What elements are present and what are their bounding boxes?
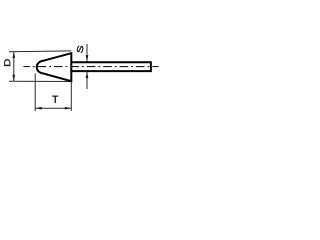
D arrowhead up (12, 52, 15, 59)
T arrowhead right (65, 107, 72, 110)
S arrowhead up (86, 72, 89, 79)
label D (4, 59, 10, 66)
shank top edge (71, 61, 151, 63)
T arrowhead left (35, 107, 42, 110)
T dimension line (35, 107, 71, 109)
D extension line top (9, 50, 71, 53)
S arrowhead down (86, 55, 89, 62)
S leader line bottom (86, 72, 88, 89)
shank end line (150, 61, 152, 72)
S leader line top (86, 44, 88, 62)
D extension line bottom (9, 80, 71, 82)
centerline (23, 66, 158, 68)
label S (77, 46, 83, 53)
D dimension line (13, 52, 15, 82)
T extension line right (70, 82, 72, 111)
label T (52, 96, 58, 103)
shank bottom edge (71, 70, 151, 72)
cone body (37, 53, 72, 81)
D arrowhead down (12, 75, 15, 82)
T extension line left (34, 74, 36, 112)
